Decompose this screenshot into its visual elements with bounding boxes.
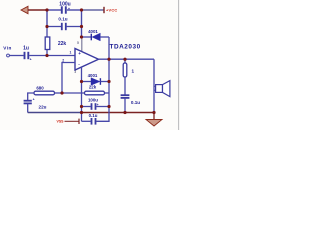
capacitor C 100u (lower)	[82, 98, 110, 110]
op-amp U1 TDA2030	[62, 43, 141, 70]
junction pin3 column / diode D2	[80, 80, 83, 83]
capacitor C 0.1u (upper)	[47, 17, 82, 31]
svg-text:4001: 4001	[88, 29, 98, 34]
svg-text:0.1u: 0.1u	[58, 17, 67, 22]
junction +VCC column / 0.1u stub	[80, 25, 83, 28]
capacitor C 100u (top, in-line)	[59, 1, 70, 13]
junction input node	[45, 54, 48, 57]
power arrow (top-left off-page)	[21, 6, 47, 13]
wire left vertical from rail	[46, 10, 48, 27]
junction output node / Zobel column	[123, 58, 126, 61]
svg-text:3: 3	[74, 70, 76, 74]
diode D2 4001 (from pin3 rail to output)	[82, 73, 110, 85]
svg-text:VSS: VSS	[56, 120, 64, 124]
junction output node / diode column	[107, 58, 110, 61]
junction pin3 column / bottom rail	[80, 111, 83, 114]
junction ground bus / left column	[45, 8, 48, 11]
svg-text:22k: 22k	[89, 85, 97, 90]
svg-text:Vin: Vin	[3, 46, 11, 51]
svg-text:+: +	[78, 51, 81, 56]
svg-text:+VCC: +VCC	[106, 8, 118, 13]
wire rail to +VCC	[67, 9, 82, 11]
svg-text:680: 680	[36, 85, 44, 90]
svg-text:0.1u: 0.1u	[131, 100, 140, 105]
resistor 680	[28, 85, 62, 100]
power port VSS	[56, 119, 79, 124]
wire pin5 supply stub	[81, 37, 83, 53]
capacitor C 1u (input coupling)	[23, 46, 75, 62]
junction +VCC column / diode D1	[80, 35, 83, 38]
junction +VCC rail / right column	[80, 8, 83, 11]
wire top rail	[47, 9, 61, 11]
junction speaker column / bottom rail	[152, 111, 155, 114]
svg-text:4001: 4001	[88, 73, 98, 78]
input terminal Vin	[3, 46, 23, 57]
junction Zobel / bottom rail	[123, 111, 126, 114]
page border	[178, 0, 180, 130]
junction left column / 0.1u stub	[45, 25, 48, 28]
wire bottom rail	[28, 112, 82, 114]
svg-text:1u: 1u	[23, 46, 29, 52]
wire +VCC vertical	[81, 10, 83, 37]
svg-text:TDA2030: TDA2030	[110, 43, 141, 50]
svg-text:+: +	[30, 58, 32, 62]
svg-text:+: +	[33, 98, 35, 102]
junction inverting node / 680 / 22k	[60, 91, 63, 94]
ground	[146, 113, 162, 127]
resistor 1 (Zobel)	[123, 59, 134, 94]
svg-text:0.1u: 0.1u	[89, 113, 98, 118]
capacitor C 0.1u (Zobel)	[121, 95, 141, 112]
svg-text:22u: 22u	[39, 105, 47, 110]
capacitor C 0.1u (lower)	[82, 107, 110, 125]
wire output	[99, 58, 155, 60]
junction pin3 column / 100u lower	[80, 105, 83, 108]
power port +VCC	[104, 7, 118, 13]
junction diode D2 / output column	[107, 80, 110, 83]
wire output vertical	[108, 59, 110, 106]
wire diode to output	[108, 37, 110, 59]
resistor 22k (input bias)	[45, 27, 66, 56]
svg-text:5: 5	[77, 41, 79, 45]
svg-text:1: 1	[132, 69, 135, 74]
junction output column / 100u lower	[107, 105, 110, 108]
wire speaker drop	[153, 59, 155, 112]
wire pin3 vertical	[81, 67, 83, 121]
diode D1 4001 (to +VCC)	[82, 29, 110, 41]
svg-text:+: +	[68, 7, 70, 11]
resistor 22k (feedback)	[62, 85, 109, 95]
svg-text:1: 1	[70, 51, 72, 55]
wire inverting input	[62, 63, 75, 94]
svg-text:22k: 22k	[58, 41, 67, 47]
capacitor C 22u	[24, 98, 47, 113]
speaker LS1	[154, 81, 170, 97]
